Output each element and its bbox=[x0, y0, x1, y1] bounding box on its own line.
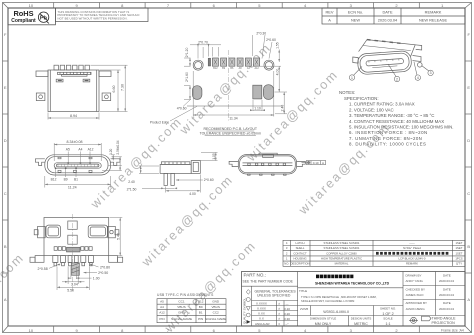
svg-text:witarea@qq.com: witarea@qq.com bbox=[0, 250, 27, 335]
svg-text:1.20: 1.20 bbox=[109, 148, 113, 154]
svg-text:2*1.60: 2*1.60 bbox=[185, 72, 189, 82]
svg-text:B1: B1 bbox=[74, 177, 78, 181]
svg-text:B9: B9 bbox=[199, 305, 203, 309]
svg-text:NOT BE USED WITHOUT WRITTEN PE: NOT BE USED WITHOUT WRITTEN PERMISSION . bbox=[58, 16, 129, 20]
svg-text:DESCRIPTION: DESCRIPTION bbox=[290, 262, 309, 266]
svg-text:MATERIAL: MATERIAL bbox=[335, 262, 349, 266]
svg-text:PIN: PIN bbox=[198, 317, 203, 321]
svg-text:JAMES XIAO: JAMES XIAO bbox=[406, 293, 425, 297]
svg-text:D: D bbox=[467, 138, 470, 143]
svg-text:ANDY YANG: ANDY YANG bbox=[406, 279, 424, 283]
svg-text:C: C bbox=[467, 191, 470, 196]
svg-text:2*1.20: 2*1.20 bbox=[185, 47, 189, 57]
svg-text:A: A bbox=[328, 18, 331, 23]
svg-text:Compliant: Compliant bbox=[11, 18, 36, 24]
svg-text:A12: A12 bbox=[254, 67, 259, 70]
svg-text:6.60: 6.60 bbox=[112, 86, 116, 93]
svg-text:1SET: 1SET bbox=[456, 241, 463, 245]
svg-text:DRAWN BY: DRAWN BY bbox=[406, 273, 422, 277]
svg-text:F: F bbox=[4, 32, 7, 37]
svg-text:DESIGN UNITS: DESIGN UNITS bbox=[351, 317, 372, 321]
svg-text:ECN No.: ECN No. bbox=[348, 10, 363, 15]
svg-text:CHECKED BY: CHECKED BY bbox=[406, 287, 426, 291]
svg-text:2020.03.04: 2020.03.04 bbox=[439, 293, 454, 297]
svg-text:1.05: 1.05 bbox=[212, 153, 216, 159]
svg-text:APPROVED BY: APPROVED BY bbox=[406, 301, 428, 305]
svg-text:5.50: 5.50 bbox=[67, 288, 74, 292]
svg-text:NEW RELEASE: NEW RELEASE bbox=[419, 18, 448, 23]
svg-text:2V0VB: 2V0VB bbox=[300, 307, 308, 311]
svg-text:1.10: 1.10 bbox=[254, 106, 261, 110]
svg-text:A4: A4 bbox=[78, 148, 82, 152]
svg-text:A: A bbox=[4, 297, 7, 302]
svg-text:4.00: 4.00 bbox=[275, 69, 279, 76]
svg-text:3: 3 bbox=[350, 3, 353, 8]
svg-text:1 OF 2: 1 OF 2 bbox=[382, 312, 393, 316]
svg-text:GND: GND bbox=[212, 300, 220, 304]
svg-text:RECOMMENDED P.C.B. LAYOUT: RECOMMENDED P.C.B. LAYOUT bbox=[204, 127, 258, 131]
svg-text:9: 9 bbox=[75, 328, 78, 333]
svg-text:NOTES:: NOTES: bbox=[339, 90, 355, 95]
svg-text:PART NO.:: PART NO.: bbox=[244, 273, 266, 278]
svg-text:8. DURABILITY: 10000 CYCLES: 8. DURABILITY: 10000 CYCLES bbox=[349, 142, 426, 147]
svg-text:4: 4 bbox=[304, 3, 307, 8]
svg-text:B12: B12 bbox=[51, 177, 57, 181]
svg-text:±: ± bbox=[278, 311, 280, 315]
svg-text:4: 4 bbox=[304, 328, 307, 333]
svg-text:ANGULAR: ANGULAR bbox=[255, 322, 270, 326]
svg-text:5: 5 bbox=[258, 328, 261, 333]
svg-text:3. TEMPERATURE RANGE: -30 °C ~: 3. TEMPERATURE RANGE: -30 °C ~ 85 °C bbox=[349, 113, 434, 118]
svg-text:0.10: 0.10 bbox=[284, 307, 290, 311]
svg-text:4: 4 bbox=[286, 241, 288, 245]
svg-text:2*0.60: 2*0.60 bbox=[266, 38, 276, 42]
svg-text:2: 2 bbox=[395, 328, 398, 333]
svg-text:TOLERANCE UNSPECIFIED ±0.05mm: TOLERANCE UNSPECIFIED ±0.05mm bbox=[200, 132, 261, 136]
svg-text:HIGH TEMPERATURE PLASTIC: HIGH TEMPERATURE PLASTIC bbox=[321, 257, 362, 261]
svg-text:PROJECTION: PROJECTION bbox=[432, 321, 456, 325]
svg-text:DATE: DATE bbox=[443, 273, 451, 277]
svg-text:---: --- bbox=[286, 302, 289, 306]
svg-text:X.XX: X.XX bbox=[258, 311, 265, 315]
svg-text:0.20: 0.20 bbox=[284, 312, 290, 316]
svg-text:DATE: DATE bbox=[443, 301, 451, 305]
svg-text:7. UNMATING FORCE: 8N~20N: 7. UNMATING FORCE: 8N~20N bbox=[349, 136, 422, 141]
svg-text:2*1.50: 2*1.50 bbox=[127, 187, 137, 191]
svg-text:0.10: 0.10 bbox=[313, 161, 319, 165]
svg-text:A4: A4 bbox=[160, 305, 164, 309]
svg-text:2: 2 bbox=[396, 77, 398, 81]
svg-text:B: B bbox=[4, 244, 7, 249]
svg-text:0.30: 0.30 bbox=[284, 317, 290, 321]
svg-text:COPPER ALLOY C2680: COPPER ALLOY C2680 bbox=[326, 251, 357, 255]
svg-text:A: A bbox=[467, 297, 470, 302]
svg-text:——: —— bbox=[409, 241, 415, 245]
svg-text:6: 6 bbox=[213, 328, 216, 333]
svg-text:6: 6 bbox=[213, 3, 216, 8]
svg-text:MM ONLY: MM ONLY bbox=[315, 322, 332, 326]
svg-text:SIGNAL NAME: SIGNAL NAME bbox=[205, 317, 226, 321]
svg-text:W3931-6-MM-II: W3931-6-MM-II bbox=[323, 310, 349, 314]
svg-text:10: 10 bbox=[29, 3, 34, 8]
svg-text:10: 10 bbox=[29, 328, 34, 333]
svg-text:8: 8 bbox=[121, 3, 124, 8]
svg-text:1SET: 1SET bbox=[456, 246, 463, 250]
svg-text:5: 5 bbox=[258, 3, 261, 8]
svg-text:NO.: NO. bbox=[284, 262, 289, 266]
svg-text:1.55: 1.55 bbox=[275, 42, 279, 49]
svg-text:D: D bbox=[4, 138, 7, 143]
svg-text:TITLE: TITLE bbox=[299, 289, 307, 293]
svg-text:Frame size :A4: Frame size :A4 bbox=[441, 329, 464, 333]
svg-text:CC1: CC1 bbox=[178, 300, 184, 304]
svg-text:TYPE C 6.1 6PIN RECEPTACLE , M: TYPE C 6.1 6PIN RECEPTACLE , MID-MOUNT O… bbox=[301, 295, 377, 299]
svg-text:1: 1 bbox=[441, 3, 444, 8]
svg-text:4. CONTACT RESISTANCE: 40 MILL: 4. CONTACT RESISTANCE: 40 MILLIOHM MAX bbox=[349, 119, 444, 124]
svg-text:±: ± bbox=[278, 316, 280, 320]
svg-text:METRIC: METRIC bbox=[354, 322, 368, 326]
svg-text:SIGNAL NAME: SIGNAL NAME bbox=[171, 317, 192, 321]
svg-text:UNLESS SPECIFIED: UNLESS SPECIFIED bbox=[257, 294, 291, 298]
svg-text:9: 9 bbox=[75, 3, 78, 8]
svg-text:VBUS: VBUS bbox=[177, 305, 185, 309]
svg-text:X.XXXX: X.XXXX bbox=[256, 301, 267, 305]
svg-text:3.04: 3.04 bbox=[71, 282, 78, 286]
svg-text:--°: --° bbox=[285, 322, 289, 326]
svg-text:2.56±0.04: 2.56±0.04 bbox=[116, 140, 120, 154]
svg-text:STAINLESS STEEL SUS301: STAINLESS STEEL SUS301 bbox=[324, 246, 360, 250]
svg-text:E: E bbox=[467, 85, 470, 90]
svg-text:4*0.60: 4*0.60 bbox=[177, 107, 187, 111]
svg-text:11.34: 11.34 bbox=[229, 116, 237, 120]
svg-text:B9: B9 bbox=[222, 67, 226, 70]
svg-text:A5: A5 bbox=[160, 300, 164, 304]
svg-text:11.24: 11.24 bbox=[68, 185, 77, 189]
svg-text:DIMENSION STYLE: DIMENSION STYLE bbox=[310, 317, 336, 321]
svg-text:Q'TY: Q'TY bbox=[456, 262, 462, 266]
svg-text:A5: A5 bbox=[66, 148, 70, 152]
svg-text:2020.03.04: 2020.03.04 bbox=[378, 18, 398, 23]
svg-text:B9: B9 bbox=[64, 177, 68, 181]
svg-text:A12: A12 bbox=[159, 311, 165, 315]
svg-text:4.00: 4.00 bbox=[189, 192, 196, 196]
svg-text:VBUS: VBUS bbox=[211, 305, 219, 309]
svg-text:2.40: 2.40 bbox=[128, 180, 135, 184]
svg-text:STAINLESS STEEL SUS301: STAINLESS STEEL SUS301 bbox=[324, 241, 360, 245]
svg-text:2*0.58: 2*0.58 bbox=[38, 267, 48, 271]
svg-text:1:1: 1:1 bbox=[386, 322, 391, 326]
svg-text:Pb: Pb bbox=[40, 15, 48, 21]
svg-text:±: ± bbox=[278, 306, 280, 310]
svg-text:SHENZHEN WITAREA TECHNOLOGY CO: SHENZHEN WITAREA TECHNOLOGY CO.,LTD bbox=[315, 281, 390, 285]
svg-text:3: 3 bbox=[286, 246, 288, 250]
svg-text:2*0.50: 2*0.50 bbox=[98, 271, 108, 275]
svg-text:witarea@qq.com: witarea@qq.com bbox=[87, 114, 185, 212]
svg-text:1: 1 bbox=[286, 257, 288, 261]
svg-text:2*0.60: 2*0.60 bbox=[204, 178, 214, 182]
svg-text:8: 8 bbox=[121, 328, 124, 333]
svg-text:DATE: DATE bbox=[382, 10, 392, 15]
svg-text:7: 7 bbox=[167, 3, 170, 8]
svg-text:B12: B12 bbox=[213, 67, 218, 70]
svg-text:2: 2 bbox=[395, 3, 398, 8]
svg-text:USB TYPE-C PIN ASSIGNMENTS: USB TYPE-C PIN ASSIGNMENTS bbox=[157, 293, 214, 297]
svg-text:QUALITY SYMBOL: QUALITY SYMBOL bbox=[243, 298, 247, 324]
svg-text:witarea@qq.com: witarea@qq.com bbox=[243, 67, 341, 165]
svg-text:CC2: CC2 bbox=[213, 311, 219, 315]
svg-text:1.00: 1.00 bbox=[93, 276, 100, 280]
svg-text:Product Edge: Product Edge bbox=[150, 120, 170, 124]
svg-text:PIN: PIN bbox=[159, 317, 164, 321]
svg-text:HOUSING: HOUSING bbox=[293, 257, 306, 261]
svg-text:2*0.80: 2*0.80 bbox=[100, 266, 110, 270]
svg-text:2*0.70: 2*0.70 bbox=[198, 41, 208, 45]
svg-text:LATCH: LATCH bbox=[296, 241, 305, 245]
svg-text:DATE: DATE bbox=[443, 287, 451, 291]
svg-text:1: 1 bbox=[351, 76, 353, 80]
svg-text:C: C bbox=[4, 191, 7, 196]
svg-text:±: ± bbox=[278, 322, 280, 326]
svg-text:JASON ZENG: JASON ZENG bbox=[406, 307, 426, 311]
svg-text:B1: B1 bbox=[199, 311, 203, 315]
svg-text:2*0.30: 2*0.30 bbox=[256, 31, 266, 35]
svg-text:7.30: 7.30 bbox=[120, 84, 124, 91]
svg-text:LCP BLACK UL94V-0: LCP BLACK UL94V-0 bbox=[398, 257, 425, 261]
svg-text:X.XXX: X.XXX bbox=[257, 306, 266, 310]
svg-text:Ni 50u" Plated: Ni 50u" Plated bbox=[403, 246, 421, 250]
svg-text:±: ± bbox=[278, 301, 280, 305]
svg-text:5.40: 5.40 bbox=[116, 233, 120, 240]
svg-text:witarea@qq.com: witarea@qq.com bbox=[138, 172, 236, 270]
svg-text:SPECIFICATION:: SPECIFICATION: bbox=[344, 96, 379, 101]
svg-text:SHELL: SHELL bbox=[296, 246, 305, 250]
svg-text:2. VOLTAGE: 100 VAC: 2. VOLTAGE: 100 VAC bbox=[349, 107, 394, 112]
svg-text:RoHS: RoHS bbox=[13, 9, 33, 18]
svg-text:SEE THE PART NUMBER CODE: SEE THE PART NUMBER CODE bbox=[243, 280, 294, 284]
svg-text:5. INSULATION RESISTANCE: 100: 5. INSULATION RESISTANCE: 100 MEGOHMS MI… bbox=[349, 125, 454, 130]
svg-text:2: 2 bbox=[286, 251, 288, 255]
svg-text:REV: REV bbox=[326, 10, 334, 15]
svg-text:1SET: 1SET bbox=[456, 251, 463, 255]
svg-text:3: 3 bbox=[350, 328, 353, 333]
svg-text:1PCS: 1PCS bbox=[455, 257, 462, 261]
svg-text:2020.03.04: 2020.03.04 bbox=[439, 279, 454, 283]
svg-text:6. INSERTION FORCE : 8N~20N: 6. INSERTION FORCE : 8N~20N bbox=[349, 130, 428, 135]
svg-text:REMARK: REMARK bbox=[425, 10, 442, 15]
svg-text:E: E bbox=[4, 85, 7, 90]
svg-text:REMARK: REMARK bbox=[406, 262, 418, 266]
svg-text:8.94: 8.94 bbox=[70, 114, 77, 118]
svg-text:A12: A12 bbox=[88, 148, 94, 152]
svg-text:CONTACT: CONTACT bbox=[293, 251, 307, 255]
svg-text:SINGLE-ROW SMT, CH=CHANNEL L=6: SINGLE-ROW SMT, CH=CHANNEL L=6.5MM bbox=[301, 299, 354, 303]
svg-text:F: F bbox=[467, 32, 470, 37]
svg-text:NEW: NEW bbox=[351, 18, 360, 23]
svg-text:GND: GND bbox=[178, 311, 186, 315]
svg-text:2.40: 2.40 bbox=[280, 105, 284, 112]
svg-text:4: 4 bbox=[417, 76, 419, 80]
svg-text:SCALE: SCALE bbox=[383, 317, 393, 321]
svg-text:8.34±0.08: 8.34±0.08 bbox=[67, 140, 83, 144]
svg-text:B: B bbox=[467, 244, 470, 249]
svg-text:A: A bbox=[322, 161, 324, 165]
svg-text:X.X: X.X bbox=[259, 316, 264, 320]
svg-text:1. CURRENT RATING: 3.0A MAX: 1. CURRENT RATING: 3.0A MAX bbox=[349, 102, 415, 107]
svg-text:SHEET NO.: SHEET NO. bbox=[380, 306, 396, 310]
svg-text:3: 3 bbox=[430, 71, 432, 75]
svg-text:2020.03.04: 2020.03.04 bbox=[439, 307, 454, 311]
svg-text:B12: B12 bbox=[198, 300, 204, 304]
